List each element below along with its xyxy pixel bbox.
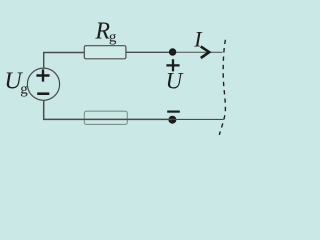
wire bottom node to dashed edge (172, 118, 223, 120)
wire bottom loop: source bottom to bottom node (44, 100, 173, 119)
wire resistor to dashed edge (top) (126, 51, 173, 53)
wire node to arrow and dashed edge (top) (173, 51, 223, 53)
voltage source Ug circle (27, 68, 59, 100)
current arrow head (201, 46, 210, 58)
bottom line resistor box (84, 111, 127, 124)
wire top loop: source top to resistor (44, 53, 84, 69)
resistor Rg (84, 46, 126, 59)
minus inside source (37, 92, 49, 95)
minus terminal (bottom right) (167, 110, 180, 112)
node dot top (169, 48, 176, 55)
svg-text:g: g (109, 30, 117, 46)
node dot bottom (168, 116, 176, 124)
plus inside source (36, 69, 49, 81)
svg-text:g: g (20, 82, 28, 98)
dashed network boundary (219, 40, 225, 135)
svg-text:U: U (166, 69, 184, 94)
plus terminal (top right) (166, 59, 179, 71)
